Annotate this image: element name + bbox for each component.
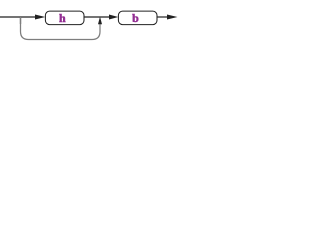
wire entry line	[0, 16, 36, 18]
svg-text:h: h	[59, 11, 66, 25]
node loop-start junction	[20, 17, 22, 24]
arrowhead loop re-entry (up)	[98, 17, 102, 25]
box b	[118, 11, 157, 25]
wire skip loop (gray)	[21, 17, 101, 40]
wire between boxes	[84, 16, 109, 18]
svg-text:b: b	[132, 11, 139, 25]
wire exit line	[157, 16, 168, 18]
arrowhead into b box	[109, 15, 118, 20]
arrowhead exit	[167, 15, 178, 20]
arrowhead into h box	[35, 15, 45, 20]
box h	[45, 11, 84, 25]
